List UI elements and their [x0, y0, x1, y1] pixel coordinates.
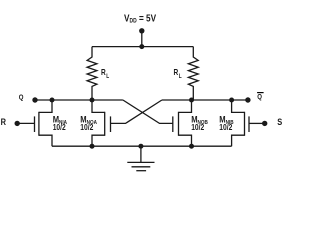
- transistor M_NIA: [17, 100, 52, 146]
- wire VDD stub: [141, 31, 143, 47]
- svg-text:10/2: 10/2: [80, 122, 93, 132]
- wire Q rail: [35, 99, 123, 101]
- svg-text:RL: RL: [174, 67, 183, 80]
- node M_NIA drain junction dot: [50, 98, 55, 103]
- transistor M_NOA: [92, 100, 111, 146]
- wire cross-couple Qbar to M_NOA gate: [111, 100, 162, 123]
- node M_NOB source junction dot: [189, 144, 194, 149]
- wire top rail: [92, 46, 193, 48]
- resistor RL right: [188, 47, 198, 100]
- node left resistor junction dot: [90, 98, 95, 103]
- svg-text:Q: Q: [19, 94, 24, 102]
- svg-text:S: S: [277, 116, 282, 127]
- transistor M_NIB: [232, 100, 265, 146]
- resistor RL left: [87, 47, 97, 100]
- transistor M_NOB: [173, 100, 192, 146]
- node M_NIB drain junction dot: [229, 98, 234, 103]
- wire bottom source rail: [52, 145, 232, 147]
- svg-text:10/2: 10/2: [191, 122, 204, 132]
- svg-text:10/2: 10/2: [219, 122, 232, 132]
- wire Qbar rail: [162, 99, 248, 101]
- svg-text:R: R: [1, 116, 6, 127]
- node Qbar terminal dot: [245, 97, 250, 102]
- svg-text:10/2: 10/2: [53, 122, 66, 132]
- svg-text:RL: RL: [101, 67, 110, 80]
- svg-text:VDD = 5V: VDD = 5V: [124, 13, 157, 25]
- label Qbar overbar: [257, 92, 264, 93]
- ground: [127, 162, 154, 170]
- svg-text:Q: Q: [257, 94, 262, 102]
- node M_NOA source junction dot: [90, 144, 95, 149]
- node R terminal dot: [15, 121, 20, 126]
- node right resistor junction dot: [189, 98, 194, 103]
- node Q terminal dot: [32, 97, 37, 102]
- node ground junction dot: [138, 144, 143, 149]
- node VDD rail junction dot: [139, 44, 144, 49]
- node VDD terminal dot: [139, 28, 144, 33]
- wire cross-couple Q to M_NOB gate: [123, 100, 173, 123]
- wire ground stub: [140, 146, 142, 162]
- node S terminal dot: [262, 121, 267, 126]
